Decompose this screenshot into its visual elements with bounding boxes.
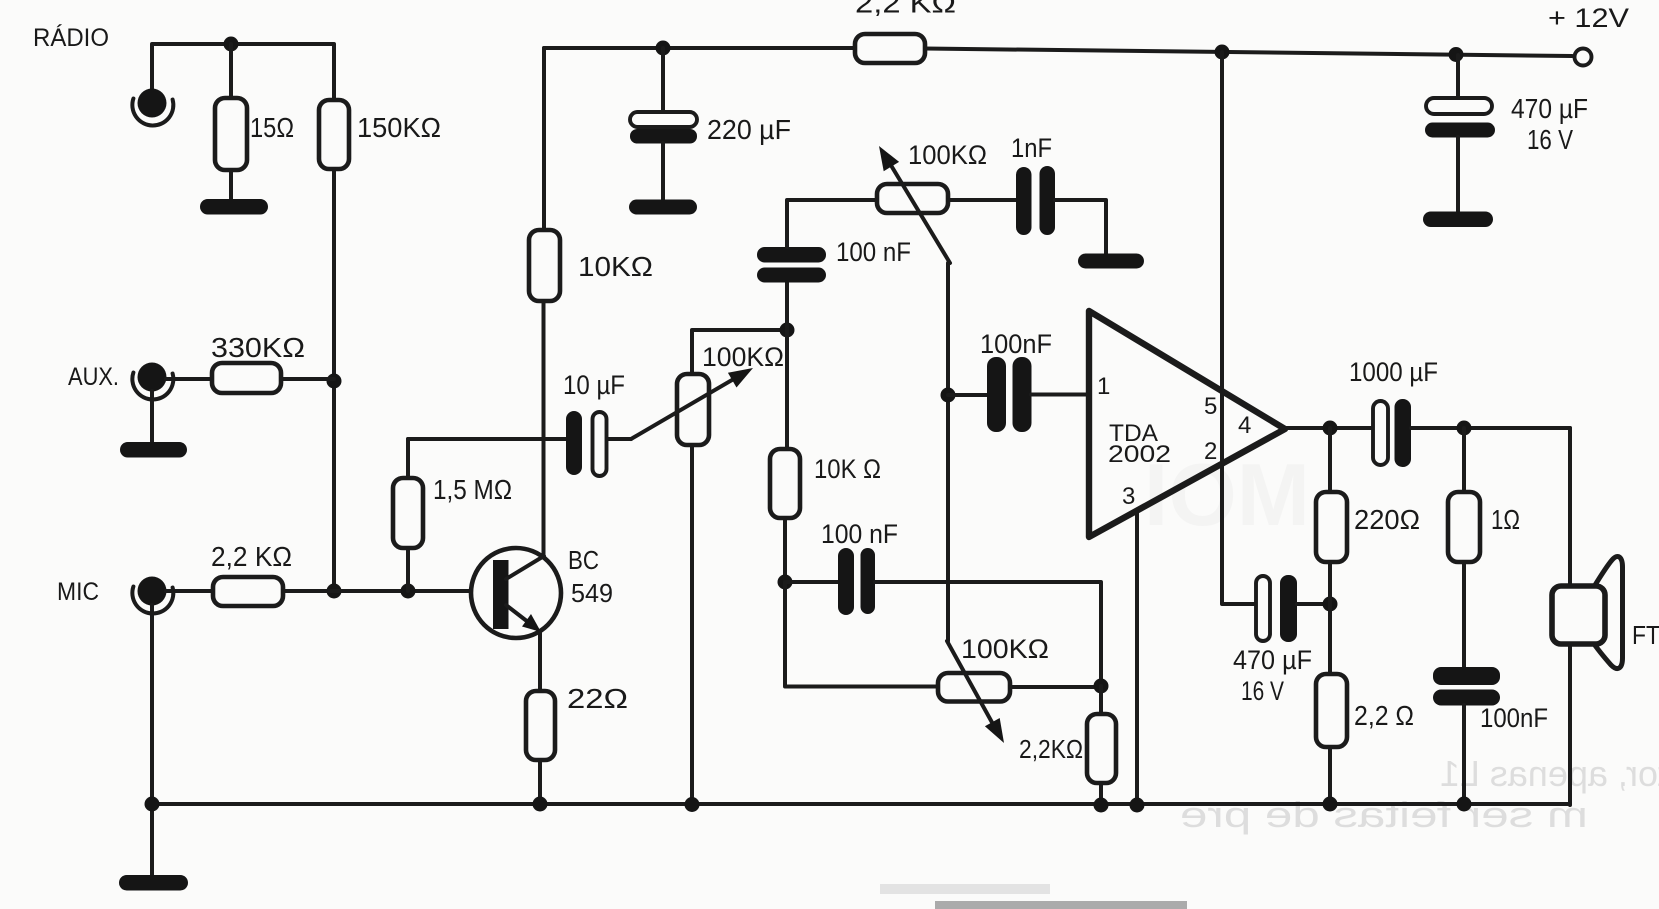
wire +12V rail left segment xyxy=(544,46,855,50)
wire pin5 supply through triangle down to 470uF xyxy=(1222,52,1256,604)
wire emitter to 22 ohm xyxy=(538,632,542,691)
capacitor 470uF supply hollow plate xyxy=(1426,98,1492,114)
wire radio jack to top corner xyxy=(152,44,334,100)
node divider junction xyxy=(1323,597,1338,612)
node D junction xyxy=(941,388,956,403)
node A junction xyxy=(780,323,795,338)
resistor 2,2 ohm xyxy=(1316,674,1347,747)
node rail emitter xyxy=(533,797,548,812)
transistor Q1 base bar xyxy=(493,560,509,629)
wire +12V rail right segment xyxy=(925,49,1572,57)
capacitor 220uF plus plate xyxy=(630,112,697,127)
node B junction xyxy=(778,575,793,590)
wire 1000uF to speaker line xyxy=(1411,426,1570,430)
wire 2,2 ohm to rail xyxy=(1328,747,1332,804)
resistor 15 ohm xyxy=(215,98,247,170)
wire node A up to 100nF xyxy=(785,282,789,330)
node aux junction xyxy=(327,374,342,389)
jack J2 AUX xyxy=(138,363,167,392)
svg-text:1Ω: 1Ω xyxy=(1491,504,1520,535)
resistor 2,2K tone xyxy=(1087,714,1116,783)
wire 1,5M vertical xyxy=(406,439,410,478)
svg-text:5: 5 xyxy=(1204,393,1217,420)
wire node C to 2,2K xyxy=(1099,686,1103,714)
capacitor 100nF input left plate xyxy=(987,357,1006,432)
svg-text:470 µF: 470 µF xyxy=(1233,645,1312,675)
wire mic jack to 2,2K xyxy=(166,589,213,593)
wire 10uF to pot wiper arrow tail xyxy=(607,437,631,441)
svg-text:2,2 KΩ: 2,2 KΩ xyxy=(211,541,292,572)
jack J1 arc xyxy=(132,99,173,126)
ground G4 xyxy=(629,200,697,215)
wire 100nF up and over to feedback pot xyxy=(787,200,877,247)
capacitor 220uF minus plate xyxy=(630,129,697,144)
wire 150K down to AUX and MIC junctions xyxy=(332,169,336,591)
SECTION: inputs xyxy=(119,37,494,891)
node output 220 ohm xyxy=(1323,421,1338,436)
resistor 1 ohm xyxy=(1448,492,1480,562)
SECTION: power amp and output xyxy=(1089,52,1623,813)
wire output node to 220 ohm xyxy=(1328,428,1332,492)
resistor 330K xyxy=(212,363,281,393)
wire 470uF supply from rail xyxy=(1456,55,1460,99)
SECTION: preamp xyxy=(145,34,1592,812)
jack J1 RADIO xyxy=(138,89,167,118)
svg-text:22Ω: 22Ω xyxy=(567,683,628,714)
potentiometer 100K feedback wiper arrowhead xyxy=(879,146,899,171)
node rail 2,2 ohm xyxy=(1323,797,1338,812)
capacitor 100nF series plate upper xyxy=(757,247,826,263)
potentiometer 100K volume wiper arrow line xyxy=(631,377,738,440)
svg-text:549: 549 xyxy=(571,578,613,608)
node rail 470uF junction xyxy=(1449,47,1464,62)
resistor 10K tone xyxy=(770,449,800,518)
node rail zobel xyxy=(1457,797,1472,812)
capacitor 1000uF solid plate xyxy=(1395,399,1412,467)
capacitor 470uF fb solid plate xyxy=(1280,575,1297,642)
svg-text:RÁDIO: RÁDIO xyxy=(33,23,109,52)
svg-text:1000 µF: 1000 µF xyxy=(1349,357,1438,387)
terminal +12V xyxy=(1575,49,1592,66)
svg-text:10 µF: 10 µF xyxy=(563,370,625,400)
capacitor 1nF right plate xyxy=(1040,166,1056,235)
wire node A down to 10K xyxy=(785,330,789,449)
capacitor 470uF fb hollow plate xyxy=(1256,576,1270,641)
bottom rail wire xyxy=(152,802,1570,806)
node rail mic xyxy=(145,797,160,812)
resistor 150K xyxy=(319,100,349,169)
wire 220uF from rail xyxy=(661,48,665,113)
wire 1,5M top tee to 10uF xyxy=(408,437,566,441)
capacitor 100nF zobel bottom plate xyxy=(1433,690,1500,706)
speaker FT body square xyxy=(1552,586,1605,644)
resistor 10K collector xyxy=(529,230,560,301)
op-amp U1 TDA2002 triangle xyxy=(1089,311,1285,537)
wire aux jack to 330K xyxy=(166,377,212,381)
potentiometer 100K volume body xyxy=(677,374,709,445)
capacitor 100nF series plate lower xyxy=(757,268,826,283)
svg-text:BC: BC xyxy=(568,545,599,575)
transistor Q1 BC549 circle xyxy=(471,548,561,638)
wire 1,5M to base line xyxy=(406,548,410,591)
svg-text:16 V: 16 V xyxy=(1527,124,1573,155)
svg-text:16 V: 16 V xyxy=(1241,676,1284,706)
node rail TDA pin5 junction xyxy=(1215,45,1230,60)
node 1 ohm junction xyxy=(1457,421,1472,436)
svg-text:+ 12V: + 12V xyxy=(1548,3,1629,33)
svg-text:1nF: 1nF xyxy=(1011,133,1052,163)
wire 470uF fb to divider junction xyxy=(1297,602,1330,606)
capacitor 100nF zobel top plate xyxy=(1433,667,1500,685)
node rail 220uF junction xyxy=(656,41,671,56)
svg-text:220 µF: 220 µF xyxy=(707,114,791,145)
svg-text:tor, apenas L1: tor, apenas L1 xyxy=(1440,753,1659,794)
speaker FT cone xyxy=(1592,556,1623,668)
wire 22 ohm to bottom rail xyxy=(538,760,542,804)
node rail 2,2K xyxy=(1094,798,1109,813)
svg-text:2,2 Ω: 2,2 Ω xyxy=(1354,700,1414,731)
svg-text:2,2 KΩ: 2,2 KΩ xyxy=(855,0,956,19)
capacitor 10uF solid plate xyxy=(566,411,582,475)
svg-text:100KΩ: 100KΩ xyxy=(702,342,784,372)
wire pin3 to rail xyxy=(1135,511,1139,805)
resistor 1,5M xyxy=(393,478,423,548)
wire node B down and to pot 100K tone xyxy=(785,582,938,687)
potentiometer 100K tone body xyxy=(938,673,1010,702)
svg-text:150KΩ: 150KΩ xyxy=(357,112,441,143)
wire node B to 100nF tone xyxy=(785,580,838,584)
ground G6 xyxy=(1423,212,1493,228)
svg-text:1,5 MΩ: 1,5 MΩ xyxy=(433,474,512,505)
potentiometer 100K feedback wiper line xyxy=(889,162,950,263)
wire node D to 100nF input cap xyxy=(948,393,988,397)
transistor Q1 emitter arrowhead xyxy=(522,614,541,632)
wire 330K to junction xyxy=(281,377,334,381)
node C junction xyxy=(1094,679,1109,694)
potentiometer 100K tone wiper line xyxy=(947,641,994,726)
wire rail to 10K collector load xyxy=(542,48,546,230)
capacitor 1nF left plate xyxy=(1016,167,1032,235)
svg-text:FT: FT xyxy=(1632,620,1659,650)
transistor Q1 collector stroke xyxy=(506,556,544,579)
svg-text:100 nF: 100 nF xyxy=(821,519,898,549)
wire pot right to node C xyxy=(1010,685,1101,689)
wire 15 ohm to ground xyxy=(229,170,233,201)
wire 1nF to ground xyxy=(1055,200,1106,255)
wire 10K to collector with tee to 1,5M xyxy=(542,301,546,558)
svg-text:220Ω: 220Ω xyxy=(1354,504,1420,535)
wire 100nF to TDA pin 1 xyxy=(1031,393,1089,397)
svg-text:10KΩ: 10KΩ xyxy=(578,251,653,282)
svg-text:100KΩ: 100KΩ xyxy=(961,634,1049,664)
svg-text:100nF: 100nF xyxy=(1480,703,1548,733)
svg-text:AUX.: AUX. xyxy=(68,363,119,391)
capacitor 10uF hollow plate xyxy=(593,412,607,476)
ground G2 xyxy=(120,442,187,458)
ground G1 xyxy=(200,199,268,215)
capacitor 470uF supply solid plate xyxy=(1425,123,1495,138)
capacitor 100nF input right plate xyxy=(1013,357,1032,432)
svg-text:10K Ω: 10K Ω xyxy=(814,454,881,484)
wire 470uF supply to ground xyxy=(1456,137,1460,213)
capacitor 100nF tone left plate xyxy=(838,548,854,615)
svg-text:2: 2 xyxy=(1204,438,1217,465)
wire 2,2K tone to rail xyxy=(1099,783,1103,805)
resistor 22 ohm xyxy=(526,691,555,760)
svg-text:100KΩ: 100KΩ xyxy=(908,140,987,170)
wire volume pot top to node A xyxy=(692,330,787,374)
capacitor 100nF tone right plate xyxy=(861,548,876,614)
jack J3 MIC xyxy=(138,577,167,606)
wire 100nF tone over to node C xyxy=(875,582,1101,686)
potentiometer 100K tone wiper arrowhead xyxy=(985,718,1004,743)
wire 100nF zobel to rail xyxy=(1462,705,1466,804)
resistor 2,2K supply xyxy=(855,34,925,63)
svg-text:100 nF: 100 nF xyxy=(836,237,911,267)
jack J3 arc xyxy=(132,587,173,614)
wire speaker vertical xyxy=(1568,428,1572,805)
svg-text:3: 3 xyxy=(1122,483,1135,510)
wire feedback pot to 1nF xyxy=(948,198,1017,202)
ground G3 xyxy=(119,875,188,891)
wire junction to 1 ohm xyxy=(1462,428,1466,492)
ground G5 xyxy=(1078,254,1144,269)
wire volume pot bottom to rail xyxy=(690,445,694,805)
wire mic jack down to bottom rail and ground xyxy=(150,605,154,875)
node base junction 1,5M xyxy=(401,584,416,599)
wire 10K to node B xyxy=(783,518,787,582)
wire output from tip xyxy=(1285,426,1373,430)
wire 220 ohm to divider junction to 2,2 ohm xyxy=(1328,562,1332,674)
node rail volume pot xyxy=(685,797,700,812)
wire 2,2K to transistor base xyxy=(283,589,494,593)
svg-text:1: 1 xyxy=(1097,373,1110,400)
wire aux jack to ground xyxy=(150,391,154,444)
svg-text:2002: 2002 xyxy=(1108,441,1171,468)
SECTION: tone network xyxy=(757,146,1144,813)
svg-text:2,2KΩ: 2,2KΩ xyxy=(1019,734,1083,764)
svg-text:4: 4 xyxy=(1238,412,1251,439)
resistor 220 ohm xyxy=(1316,492,1347,562)
svg-text:m ser feitas de pre: m ser feitas de pre xyxy=(1180,794,1588,835)
capacitor 1000uF hollow plate xyxy=(1373,401,1388,465)
wire wiper bus vertical xyxy=(946,263,950,641)
node radio top junction xyxy=(224,37,239,52)
jack J2 arc xyxy=(132,373,173,400)
wire 1 ohm to 100nF zobel xyxy=(1462,562,1466,668)
svg-text:100nF: 100nF xyxy=(980,329,1052,359)
wire 220uF to ground xyxy=(661,143,665,201)
resistor 2,2K mic xyxy=(213,577,283,606)
potentiometer 100K feedback body xyxy=(877,184,948,213)
svg-text:MIC: MIC xyxy=(57,578,99,606)
wire junction to 15 ohm xyxy=(229,44,233,99)
svg-text:330KΩ: 330KΩ xyxy=(211,332,305,363)
svg-text:15Ω: 15Ω xyxy=(250,112,294,143)
node mic junction xyxy=(327,584,342,599)
ghost bleed-through text layer xyxy=(880,445,1659,909)
potentiometer 100K volume wiper arrowhead xyxy=(728,368,753,388)
node rail pin3 xyxy=(1130,798,1145,813)
transistor Q1 emitter stroke xyxy=(506,605,528,622)
svg-text:470 µF: 470 µF xyxy=(1511,93,1588,124)
